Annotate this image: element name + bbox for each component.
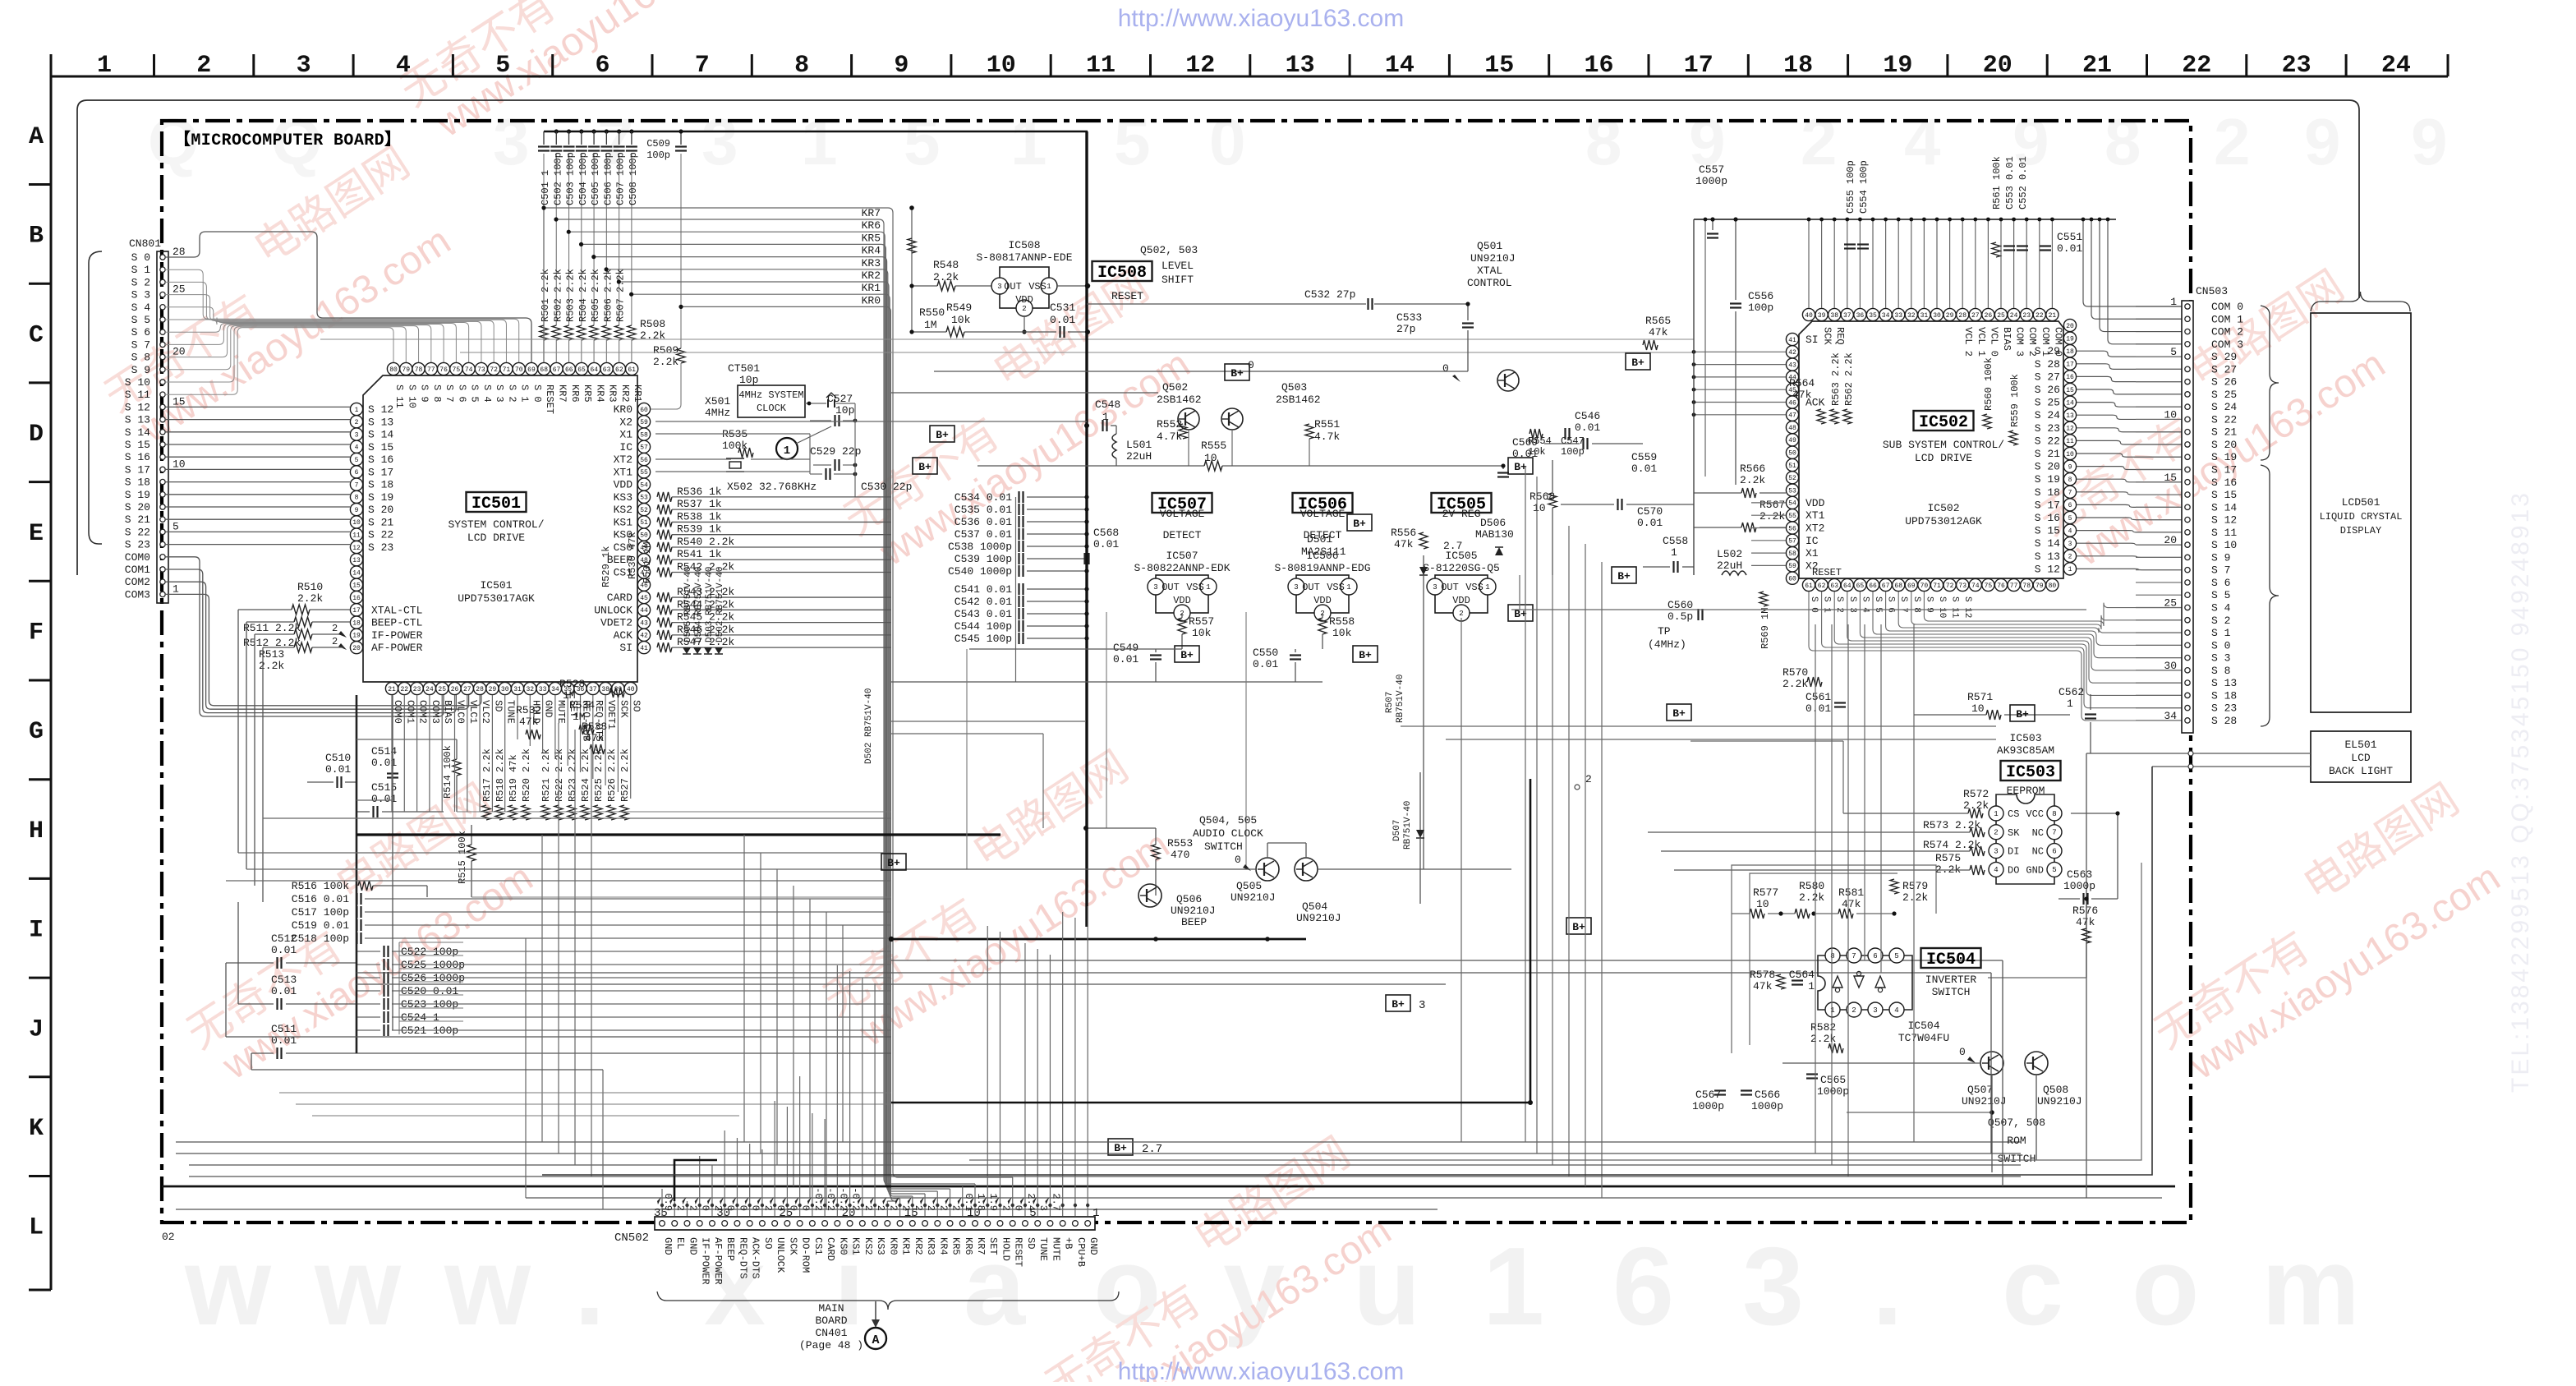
svg-text:S 17: S 17 — [2211, 464, 2237, 477]
capacitors C501-C508 — [543, 131, 545, 145]
svg-text:IC508: IC508 — [1097, 264, 1147, 283]
svg-text:73: 73 — [1958, 582, 1966, 590]
svg-text:20: 20 — [2066, 323, 2074, 330]
svg-text:4.7k: 4.7k — [1157, 431, 1182, 443]
svg-text:.: . — [1872, 1224, 1903, 1348]
svg-text:VDD: VDD — [1015, 294, 1033, 306]
svg-text:COM 0: COM 0 — [2052, 327, 2063, 357]
svg-text:R558: R558 — [1329, 615, 1355, 628]
svg-text:R572: R572 — [1963, 788, 1989, 800]
svg-text:SD: SD — [492, 700, 504, 711]
svg-text:S 12: S 12 — [1962, 596, 1972, 618]
svg-text:S 7: S 7 — [1898, 596, 1908, 613]
resistor R550 1M — [911, 208, 913, 332]
svg-text:3: 3 — [1419, 999, 1425, 1012]
svg-text:6: 6 — [595, 52, 609, 80]
svg-text:56: 56 — [1788, 525, 1796, 532]
svg-text:17: 17 — [352, 607, 361, 615]
svg-text:S 24: S 24 — [2211, 401, 2237, 413]
svg-text:65: 65 — [577, 366, 586, 374]
svg-text:D502 RB751V-40: D502 RB751V-40 — [715, 567, 725, 642]
connector CN503 — [2182, 301, 2193, 733]
svg-text:S 10: S 10 — [2211, 539, 2237, 551]
svg-text:2: 2 — [1801, 105, 1838, 178]
svg-text:0.01: 0.01 — [371, 793, 397, 805]
svg-text:S 16: S 16 — [125, 451, 150, 463]
svg-text:10k: 10k — [951, 314, 971, 326]
svg-text:23: 23 — [2022, 312, 2031, 320]
svg-text:R578: R578 — [1750, 969, 1775, 981]
svg-text:COM 0: COM 0 — [2211, 301, 2243, 313]
svg-text:B+: B+ — [1230, 367, 1244, 380]
svg-text:Q502, 503: Q502, 503 — [1140, 244, 1198, 256]
svg-text:R562 2.2k: R562 2.2k — [1843, 352, 1855, 406]
svg-text:AF-POWER: AF-POWER — [371, 642, 423, 654]
svg-text:41: 41 — [640, 645, 648, 652]
svg-text:S 25: S 25 — [2211, 389, 2237, 401]
svg-text:1: 1 — [1206, 583, 1210, 592]
svg-text:S 4: S 4 — [481, 384, 493, 403]
svg-text:S 6: S 6 — [131, 326, 150, 338]
IC501 bottom pins 21-40 — [385, 682, 398, 694]
svg-text:UN9210J: UN9210J — [1296, 912, 1341, 924]
wire eeprom risers — [2071, 813, 2118, 814]
svg-text:7: 7 — [695, 52, 710, 80]
svg-text:R523 2.2k: R523 2.2k — [567, 748, 578, 802]
svg-text:2: 2 — [712, 1205, 724, 1211]
svg-text:0: 0 — [787, 1205, 798, 1211]
svg-text:K: K — [29, 1115, 44, 1143]
svg-text:TP: TP — [1658, 625, 1671, 638]
svg-text:B+: B+ — [1631, 357, 1644, 369]
svg-text:S 8: S 8 — [131, 352, 150, 364]
svg-text:KR0: KR0 — [862, 294, 881, 306]
wire long rails mid top — [320, 338, 1694, 340]
svg-text:C503 100p: C503 100p — [565, 152, 577, 205]
svg-text:R532: R532 — [516, 704, 541, 716]
svg-text:C537 0.01: C537 0.01 — [954, 528, 1012, 541]
svg-text:IF-POWER: IF-POWER — [700, 1237, 711, 1285]
svg-text:25: 25 — [2164, 596, 2177, 609]
svg-text:15: 15 — [172, 395, 186, 408]
svg-text:CPU+B: CPU+B — [1075, 1237, 1087, 1267]
svg-text:GND: GND — [662, 1237, 674, 1255]
svg-text:S-80819ANNP-EDG: S-80819ANNP-EDG — [1274, 562, 1370, 574]
watermark pink tiles — [73, 138, 465, 458]
svg-text:S 20: S 20 — [125, 501, 150, 513]
svg-text:25: 25 — [1997, 312, 2005, 320]
svg-text:R534: R534 — [569, 699, 595, 711]
svg-text:S 17: S 17 — [368, 466, 393, 478]
svg-text:R553: R553 — [1167, 837, 1193, 850]
svg-text:UN9210J: UN9210J — [1230, 891, 1276, 904]
svg-text:2.2k: 2.2k — [653, 356, 678, 368]
svg-text:6: 6 — [355, 469, 359, 477]
wire COM bundle top to CN503 — [2083, 219, 2182, 306]
svg-text:6: 6 — [1873, 952, 1877, 960]
svg-text:10k: 10k — [1192, 627, 1212, 639]
svg-text:S 7: S 7 — [2211, 564, 2230, 577]
svg-text:BIAS: BIAS — [442, 700, 453, 724]
wire bus CN801 COM0-COM3 — [165, 557, 444, 716]
svg-text:C552 0.01: C552 0.01 — [2017, 156, 2029, 210]
svg-text:C562: C562 — [2058, 686, 2084, 698]
svg-text:45: 45 — [640, 595, 648, 602]
svg-text:C548: C548 — [1095, 398, 1120, 411]
svg-text:VLC1: VLC1 — [467, 700, 479, 724]
svg-text:R570: R570 — [1782, 666, 1808, 679]
IC508 label — [1092, 261, 1152, 281]
svg-text:60: 60 — [1788, 576, 1796, 583]
svg-text:CS1: CS1 — [812, 1237, 824, 1255]
svg-text:S 22: S 22 — [125, 526, 150, 538]
svg-text:8: 8 — [1830, 952, 1834, 960]
svg-text:S 0: S 0 — [1809, 596, 1819, 613]
svg-text:w: w — [314, 1224, 402, 1348]
svg-text:38: 38 — [1830, 312, 1838, 320]
wire corner loops bottom right — [542, 767, 2152, 1175]
svg-text:(4MHz): (4MHz) — [1648, 638, 1686, 651]
svg-text:1000p: 1000p — [1817, 1085, 1849, 1098]
svg-text:70: 70 — [515, 366, 523, 374]
svg-text:75: 75 — [1985, 582, 1993, 590]
svg-text:S-81220SG-Q5: S-81220SG-Q5 — [1423, 562, 1500, 574]
svg-text:63: 63 — [603, 366, 611, 374]
svg-text:LCD DRIVE: LCD DRIVE — [467, 532, 525, 544]
svg-text:S 21: S 21 — [2211, 426, 2237, 439]
svg-text:C543 0.01: C543 0.01 — [954, 608, 1012, 620]
svg-text:IC503: IC503 — [2009, 732, 2041, 744]
svg-text:B+: B+ — [2016, 708, 2029, 721]
svg-text:29: 29 — [1946, 312, 1954, 320]
svg-text:IC: IC — [619, 441, 632, 454]
svg-text:VCL 1: VCL 1 — [1976, 327, 1987, 357]
svg-text:71: 71 — [503, 366, 511, 374]
B+ labels detectors — [1347, 514, 1372, 531]
svg-text:D507: D507 — [1392, 820, 1402, 841]
svg-text:C541 0.01: C541 0.01 — [954, 583, 1012, 596]
svg-text:47k: 47k — [1753, 980, 1773, 992]
svg-text:15: 15 — [1484, 52, 1514, 80]
svg-text:LCD DRIVE: LCD DRIVE — [1915, 452, 1972, 464]
svg-text:68: 68 — [540, 366, 548, 374]
svg-text:1.8: 1.8 — [975, 1193, 987, 1211]
svg-text:71: 71 — [1933, 582, 1941, 590]
svg-text:5: 5 — [172, 520, 179, 532]
svg-text:S 15: S 15 — [2211, 489, 2237, 501]
svg-text:S 20: S 20 — [2211, 439, 2237, 451]
svg-text:R533: R533 — [582, 721, 607, 733]
svg-text:+B: +B — [1063, 1237, 1074, 1249]
svg-text:C512: C512 — [271, 932, 297, 945]
voltage detector IC506 — [1293, 493, 1353, 513]
svg-text:0.01: 0.01 — [1113, 653, 1138, 665]
svg-text:RB751V-40: RB751V-40 — [1396, 675, 1405, 723]
svg-text:COM 1: COM 1 — [2211, 313, 2243, 325]
svg-text:66: 66 — [565, 366, 573, 374]
wire comb CN502 — [661, 1189, 663, 1216]
svg-text:0.01: 0.01 — [1575, 421, 1600, 434]
svg-text:0: 0 — [1248, 359, 1254, 371]
svg-text:20: 20 — [1983, 52, 2012, 80]
svg-text:S 7: S 7 — [444, 384, 455, 403]
svg-text:100p: 100p — [1561, 446, 1585, 458]
op-amp U1 IC501 body — [363, 375, 637, 682]
svg-text:29: 29 — [489, 686, 497, 693]
svg-text:BIAS: BIAS — [2001, 327, 2012, 351]
svg-text:57: 57 — [640, 444, 648, 452]
svg-text:UN9210J: UN9210J — [1470, 252, 1516, 265]
svg-text:R537 1k: R537 1k — [677, 498, 722, 510]
svg-text:10: 10 — [2164, 408, 2177, 421]
svg-text:17: 17 — [1684, 52, 1713, 80]
svg-text:37: 37 — [589, 686, 597, 693]
transistor Q506 — [1138, 884, 1161, 907]
svg-text:6: 6 — [2068, 502, 2072, 509]
svg-text:S 12: S 12 — [368, 403, 393, 416]
svg-text:IC504: IC504 — [1926, 951, 1976, 969]
svg-text:S 13: S 13 — [368, 416, 393, 428]
svg-text:9: 9 — [2411, 105, 2448, 178]
svg-text:EL501: EL501 — [2344, 739, 2376, 751]
svg-text:COM 3: COM 3 — [2014, 327, 2026, 357]
svg-text:DETECT: DETECT — [1163, 529, 1202, 541]
svg-text:ACK-DTS: ACK-DTS — [750, 1237, 761, 1278]
svg-text:2.2k: 2.2k — [297, 592, 323, 605]
wire mid verticals lower — [525, 938, 527, 1198]
svg-text:R510: R510 — [297, 581, 323, 593]
svg-text:S 9: S 9 — [1924, 596, 1934, 613]
svg-text:S 22: S 22 — [2035, 435, 2060, 447]
svg-text:KR5: KR5 — [862, 232, 881, 244]
svg-text:UN9210J: UN9210J — [1171, 905, 1216, 917]
svg-text:C517 100p: C517 100p — [292, 906, 349, 919]
svg-text:A: A — [872, 1333, 879, 1347]
svg-text:S-80822ANNP-EDK: S-80822ANNP-EDK — [1134, 562, 1230, 574]
svg-text:S 13: S 13 — [2211, 677, 2237, 689]
svg-text:S 1: S 1 — [519, 384, 531, 403]
svg-text:35: 35 — [1869, 312, 1877, 320]
svg-text:B+: B+ — [1572, 921, 1585, 933]
node 1 circled — [776, 438, 798, 459]
svg-text:C504 100p: C504 100p — [577, 152, 589, 205]
svg-text:CS: CS — [2008, 808, 2019, 820]
svg-text:VSS: VSS — [1186, 582, 1204, 593]
svg-text:0: 0 — [1959, 1046, 1966, 1058]
svg-text:BOARD: BOARD — [815, 1315, 847, 1327]
svg-text:R515 100k: R515 100k — [457, 831, 468, 884]
svg-text:52: 52 — [640, 507, 648, 514]
transistor Q505 — [1256, 858, 1279, 881]
svg-text:VSS: VSS — [1028, 281, 1046, 292]
svg-text:VDD: VDD — [1313, 595, 1332, 606]
svg-text:KR4: KR4 — [937, 1237, 949, 1255]
svg-text:72: 72 — [490, 366, 498, 374]
svg-text:0.01: 0.01 — [325, 763, 351, 776]
IC502 label — [1914, 411, 1974, 431]
svg-text:48: 48 — [1788, 425, 1796, 432]
svg-text:22: 22 — [2035, 312, 2044, 320]
svg-text:HOLD: HOLD — [1000, 1237, 1011, 1261]
svg-text:C545 100p: C545 100p — [954, 633, 1012, 645]
svg-text:C501 1: C501 1 — [540, 170, 551, 205]
svg-text:MAIN: MAIN — [818, 1302, 844, 1315]
svg-text:S 19: S 19 — [125, 489, 150, 501]
svg-text:C542 0.01: C542 0.01 — [954, 596, 1012, 608]
svg-text:D: D — [29, 421, 44, 449]
svg-text:COM0: COM0 — [392, 700, 403, 724]
svg-text:2: 2 — [1022, 305, 1026, 313]
svg-text:C559: C559 — [1631, 451, 1657, 463]
svg-text:B+: B+ — [1391, 998, 1405, 1011]
svg-text:S 22: S 22 — [368, 529, 393, 541]
svg-text:38: 38 — [601, 686, 609, 693]
svg-text:KS1: KS1 — [850, 1237, 862, 1255]
svg-text:79: 79 — [2035, 582, 2044, 590]
svg-text:D501: D501 — [1307, 533, 1332, 546]
svg-text:B+: B+ — [887, 857, 900, 869]
svg-text:RB751V-40: RB751V-40 — [1403, 801, 1413, 850]
svg-text:10p: 10p — [739, 374, 758, 386]
svg-text:6: 6 — [2052, 847, 2056, 855]
wire bus IC502 to CN503 — [2077, 351, 2182, 357]
svg-text:KR2: KR2 — [913, 1237, 924, 1255]
svg-text:25: 25 — [438, 686, 446, 693]
svg-text:1: 1 — [1092, 1207, 1099, 1220]
svg-text:COM3: COM3 — [125, 588, 150, 601]
svg-text:COM1: COM1 — [125, 564, 150, 576]
wire verticals below IC502 — [1815, 624, 1816, 1153]
svg-text:COM 2: COM 2 — [2211, 326, 2243, 338]
svg-text:KR7: KR7 — [557, 384, 568, 403]
svg-text:44: 44 — [640, 607, 648, 615]
svg-text:43: 43 — [1788, 361, 1796, 369]
IC501 left pins 1-20 — [350, 403, 362, 415]
svg-text:2.2k: 2.2k — [1759, 510, 1785, 523]
svg-text:C531: C531 — [1050, 302, 1075, 314]
svg-text:0.01: 0.01 — [1093, 538, 1119, 550]
svg-text:2.2k: 2.2k — [1963, 799, 1989, 812]
svg-text:S 12: S 12 — [2035, 563, 2060, 575]
svg-text:27: 27 — [1971, 312, 1980, 320]
svg-text:SD: SD — [1025, 1237, 1037, 1249]
svg-text:SYSTEM CONTROL/: SYSTEM CONTROL/ — [448, 518, 544, 531]
svg-text:0: 0 — [700, 1205, 711, 1211]
svg-text:54: 54 — [1788, 500, 1796, 508]
svg-text:R518 2.2k: R518 2.2k — [494, 748, 506, 802]
op-amp U2 IC502 body — [1799, 321, 2063, 578]
svg-text:NC: NC — [2032, 827, 2044, 839]
svg-text:KS2: KS2 — [614, 504, 632, 516]
svg-text:UN9210J: UN9210J — [1962, 1095, 2007, 1107]
wire top rail — [544, 131, 1088, 133]
svg-text:B: B — [29, 223, 44, 251]
svg-text:70: 70 — [1920, 582, 1929, 590]
svg-text:2.2k: 2.2k — [1810, 1033, 1836, 1045]
svg-text:S 26: S 26 — [2035, 384, 2060, 396]
IC503 label — [2001, 761, 2061, 780]
wire texture rails lower-left — [279, 1092, 891, 1094]
svg-text:R566: R566 — [1740, 463, 1765, 475]
svg-text:S 2: S 2 — [2211, 615, 2230, 627]
resistor R509 2.2k — [680, 154, 682, 348]
svg-text:0: 0 — [1235, 854, 1241, 866]
svg-text:19: 19 — [2066, 335, 2074, 343]
svg-text:S 14: S 14 — [2035, 537, 2060, 550]
svg-text:R556: R556 — [1391, 527, 1416, 539]
svg-text:KR1: KR1 — [900, 1237, 912, 1255]
svg-text:C530 22p: C530 22p — [861, 481, 912, 493]
svg-text:D504 RB751V-40: D504 RB751V-40 — [694, 567, 704, 642]
svg-text:22uH: 22uH — [1126, 450, 1152, 463]
svg-text:EL: EL — [674, 1237, 686, 1249]
svg-text:53: 53 — [640, 495, 648, 502]
svg-text:KS3: KS3 — [875, 1237, 886, 1255]
svg-text:2SB1462: 2SB1462 — [1157, 394, 1202, 406]
svg-text:MA2S111: MA2S111 — [1301, 546, 1346, 558]
svg-text:22uH: 22uH — [1717, 559, 1742, 572]
svg-text:SWITCH: SWITCH — [1932, 986, 1971, 998]
svg-text:m: m — [2261, 1224, 2360, 1348]
svg-text:XT1: XT1 — [614, 466, 633, 478]
svg-text:R519 47k: R519 47k — [508, 754, 519, 802]
svg-text:R502 2.2k: R502 2.2k — [552, 269, 563, 322]
svg-text:C533: C533 — [1396, 311, 1422, 324]
svg-text:2SB1462: 2SB1462 — [1276, 394, 1321, 406]
svg-text:S 8: S 8 — [431, 384, 443, 403]
svg-text:S 10: S 10 — [125, 376, 150, 389]
svg-text:2: 2 — [2214, 105, 2251, 178]
IC501 top pins 80-61 — [387, 362, 399, 375]
connector CN502 — [655, 1217, 1095, 1230]
wire IC502 left stubs — [1694, 351, 1786, 352]
svg-text:MUTE: MUTE — [1050, 1237, 1061, 1261]
wire vertical main bus x1323 — [1085, 131, 1088, 927]
svg-text:TEL:13842299513 QQ:375345150: TEL:13842299513 QQ:375345150 949248913 — [2507, 490, 2534, 1093]
svg-text:IC: IC — [1805, 535, 1819, 547]
svg-text:R538 1k: R538 1k — [677, 510, 722, 523]
svg-text:1: 1 — [2170, 296, 2177, 308]
transistor Q508 — [2025, 1052, 2048, 1075]
svg-text:0: 0 — [800, 1205, 812, 1211]
svg-text:C550: C550 — [1253, 647, 1278, 659]
svg-text:GND: GND — [1088, 1237, 1099, 1255]
svg-text:R503 2.2k: R503 2.2k — [565, 269, 577, 322]
svg-text:C538 1000p: C538 1000p — [948, 541, 1012, 553]
svg-text:ROM: ROM — [2007, 1135, 2026, 1147]
svg-text:S 18: S 18 — [125, 477, 150, 489]
svg-text:SI: SI — [619, 642, 632, 654]
svg-text:B+: B+ — [1353, 518, 1366, 530]
IC502 left pins 41-60 — [1786, 333, 1798, 345]
svg-text:COM1: COM1 — [404, 700, 416, 724]
svg-text:11: 11 — [1086, 52, 1115, 80]
svg-text:1: 1 — [1808, 980, 1815, 992]
svg-text:SWITCH: SWITCH — [1204, 840, 1243, 853]
svg-text:TUNE: TUNE — [505, 700, 517, 724]
svg-text:5: 5 — [495, 52, 510, 80]
IC501 label — [467, 492, 527, 512]
svg-text:S 20: S 20 — [368, 504, 393, 516]
svg-text:D505 RB751V-40: D505 RB751V-40 — [683, 567, 693, 642]
svg-text:【MICROCOMPUTER BOARD】: 【MICROCOMPUTER BOARD】 — [174, 130, 401, 150]
svg-text:R554: R554 — [1528, 435, 1552, 447]
svg-text:32: 32 — [1907, 312, 1916, 320]
svg-text:47k: 47k — [1649, 326, 1668, 338]
svg-text:C518 100p: C518 100p — [292, 932, 349, 945]
svg-text:3: 3 — [2068, 541, 2072, 548]
wire B+ row mid-right — [1511, 609, 2086, 610]
